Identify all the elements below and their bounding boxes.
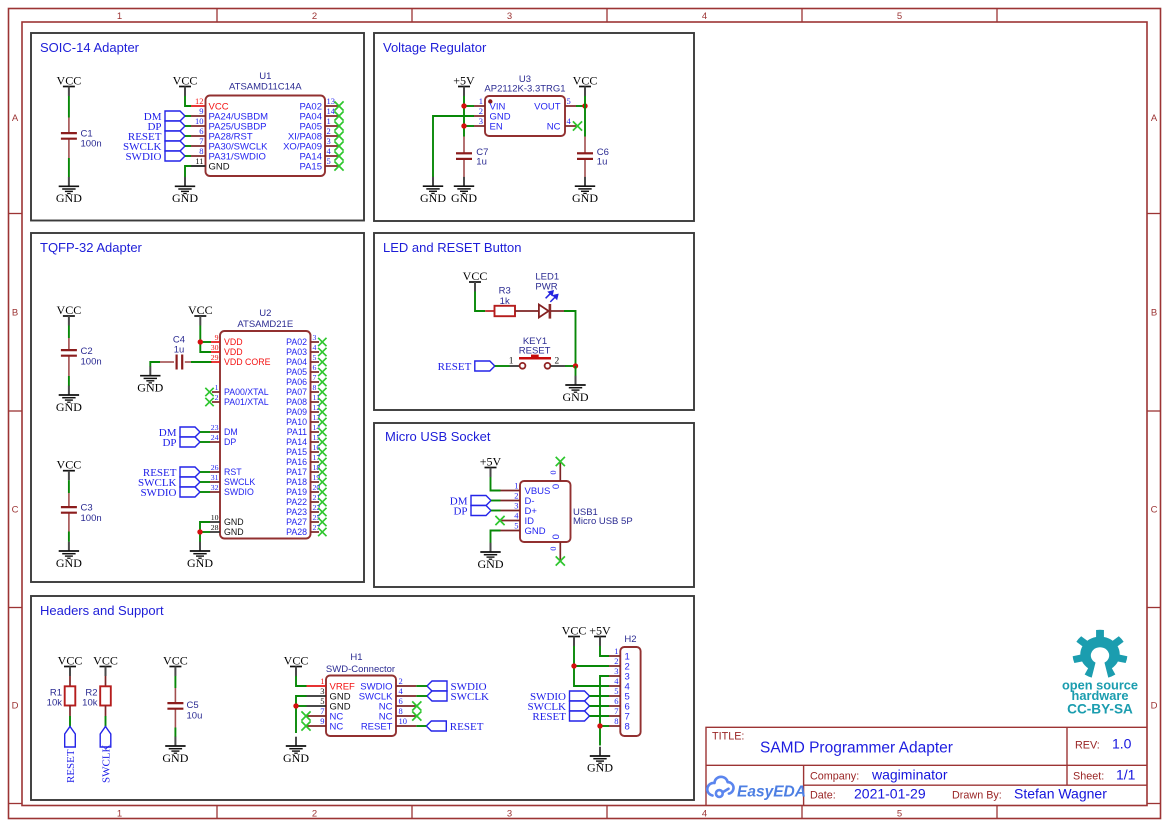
wire USB1 GND to ground: [491, 531, 501, 547]
svg-text:3: 3: [614, 666, 618, 676]
U2 pin 28 (GND): [210, 523, 244, 537]
no-connect X at (322.3,482): [318, 478, 326, 486]
svg-text:SAMD Programmer Adapter: SAMD Programmer Adapter: [760, 740, 953, 757]
svg-text:VCC: VCC: [173, 74, 198, 88]
wire SWDIO flag to H2 pin 5: [590, 695, 610, 697]
wire U3 GND pin to ground: [433, 116, 474, 177]
no-connect X at (322.3,362): [318, 358, 326, 366]
no-connect X at (322.3,412): [318, 408, 326, 416]
svg-text:RESET: RESET: [361, 721, 393, 732]
wire button to GND rail: [565, 365, 576, 367]
no-connect X at (500,520.5): [495, 516, 504, 525]
svg-text:GND: GND: [56, 400, 82, 414]
U2 pin 6 (PA05) with no-connect: [286, 363, 319, 377]
wire H2 pin 8 to ground rail: [600, 725, 609, 727]
wire C4 to VDD CORE pin: [191, 361, 212, 363]
wire DM flag to D-: [491, 500, 501, 502]
U2 pin 22 (PA23) with no-connect: [286, 503, 320, 517]
power flag VCC at (68.9,314): [57, 303, 82, 326]
H2 pin 4: [609, 676, 630, 692]
svg-text:5: 5: [313, 353, 317, 362]
power flag VCC at (105.5,664.5): [93, 654, 118, 677]
svg-text:GND: GND: [56, 556, 82, 570]
svg-text:32: 32: [211, 483, 219, 492]
svg-text:1.0: 1.0: [1112, 736, 1132, 752]
svg-text:10u: 10u: [187, 711, 203, 722]
svg-text:6: 6: [313, 363, 317, 372]
no-connect X at (416.8,706): [412, 701, 421, 710]
section box: SOIC-14 Adapter: [31, 33, 364, 221]
svg-text:PWR: PWR: [535, 282, 557, 293]
svg-text:3: 3: [507, 11, 512, 22]
svg-text:9: 9: [320, 716, 324, 726]
capacitor C5 10u: [167, 700, 202, 722]
net flag DP: [147, 121, 185, 133]
ground symbol at (175.4,746): [162, 737, 188, 765]
U2 pin 15 (PA14) with no-connect: [286, 433, 320, 447]
power flag VCC at (70,664.5): [58, 654, 83, 677]
U3 pin 1 (VIN): [474, 96, 505, 112]
no-connect X at (560.3,561): [556, 556, 565, 565]
capacitor C7 1u: [456, 147, 488, 168]
wire VCC to H1 VREF: [296, 676, 307, 686]
svg-text:1u: 1u: [174, 345, 185, 356]
svg-text:C5: C5: [187, 700, 199, 711]
svg-text:TQFP-32 Adapter: TQFP-32 Adapter: [40, 240, 143, 255]
svg-text:PA01/XTAL: PA01/XTAL: [224, 397, 269, 407]
wire +5V to U3 VIN: [464, 105, 474, 107]
svg-text:2: 2: [312, 809, 317, 820]
no-connect X at (209.5,392): [205, 388, 213, 396]
junction at (574,666): [571, 663, 576, 668]
svg-text:7: 7: [199, 136, 203, 146]
svg-text:SOIC-14 Adapter: SOIC-14 Adapter: [40, 40, 140, 55]
U2 pin 31 (SWCLK): [210, 473, 255, 487]
svg-text:A: A: [1151, 113, 1158, 124]
svg-text:3: 3: [507, 809, 512, 820]
svg-text:1: 1: [509, 356, 514, 366]
U1 pin 4 (PA14) with no-connect: [299, 146, 339, 162]
U2 pin 19 (PA18) with no-connect: [286, 473, 320, 487]
svg-text:VCC: VCC: [573, 74, 598, 88]
wire SWCLK flag: [416, 695, 427, 697]
U2 pin 18 (PA17) with no-connect: [286, 463, 320, 477]
svg-text:C: C: [1151, 505, 1158, 516]
net flag DM: [450, 495, 491, 507]
svg-text:5: 5: [614, 686, 618, 696]
svg-text:PA17: PA17: [286, 467, 307, 477]
no-connect X at (560.3,461.5): [556, 457, 565, 466]
U1 pin 5 (PA15) with no-connect: [299, 156, 339, 172]
no-connect X at (209.5,402): [205, 398, 213, 406]
svg-text:8: 8: [313, 383, 317, 392]
svg-text:0: 0: [551, 534, 562, 539]
svg-text:27: 27: [313, 523, 321, 532]
svg-text:DP: DP: [453, 505, 467, 517]
wire H2 pin 3 to ground rail: [600, 676, 609, 746]
U2 pin 32 (SWDIO): [210, 483, 254, 497]
svg-text:Micro USB Socket: Micro USB Socket: [385, 429, 491, 444]
svg-text:U2: U2: [259, 308, 271, 319]
svg-text:VCC: VCC: [463, 269, 488, 283]
svg-text:3: 3: [313, 333, 317, 342]
wire DM flag to U1: [185, 115, 191, 117]
wire VCC to U2 VDD pins: [200, 326, 211, 353]
svg-text:PA09: PA09: [286, 407, 307, 417]
no-connect X at (322.3,452): [318, 448, 326, 456]
U2 pin 20 (PA19) with no-connect: [286, 483, 320, 497]
wire DP flag to U1: [185, 125, 191, 127]
no-connect X at (339,126): [334, 121, 343, 130]
svg-text:AP2112K-3.3TRG1: AP2112K-3.3TRG1: [484, 84, 565, 95]
net flag DP: [162, 437, 200, 449]
svg-text:0: 0: [551, 484, 562, 489]
junction at (464,126): [461, 123, 466, 128]
U3 pin 3 (EN): [474, 116, 503, 132]
no-connect X at (339,166): [334, 161, 343, 170]
no-connect X at (322.3,422): [318, 418, 326, 426]
svg-text:RESET: RESET: [65, 749, 77, 783]
no-connect X at (322.3,532): [318, 528, 326, 536]
USB1 pin 5 (GND): [501, 521, 546, 537]
net flag RESET: [143, 467, 200, 479]
svg-text:PA08: PA08: [286, 397, 307, 407]
U1 pin 6 (PA28/RST): [191, 126, 253, 142]
svg-text:+5V: +5V: [480, 455, 502, 469]
svg-text:8: 8: [199, 146, 203, 156]
svg-text:C: C: [12, 505, 19, 516]
svg-text:NC: NC: [330, 721, 344, 732]
USB1 shield pin 0 top: [548, 463, 562, 490]
svg-text:1k: 1k: [500, 296, 510, 307]
svg-text:VCC: VCC: [284, 654, 309, 668]
U2 pin 5 (PA04) with no-connect: [286, 353, 319, 367]
svg-text:GND: GND: [478, 557, 504, 571]
svg-text:VCC: VCC: [57, 303, 82, 317]
capacitor C5 leads: [174, 688, 176, 703]
H1 pin 9 (NC): [307, 716, 344, 732]
svg-text:B: B: [1151, 308, 1157, 319]
U2 pin 11 (PA08) with no-connect: [286, 393, 320, 407]
svg-text:25: 25: [313, 513, 321, 522]
no-connect X at (339,146): [334, 141, 343, 150]
net flag RESET: [426, 721, 483, 733]
H2 pin 5: [609, 686, 630, 702]
USB1 pin 3 (D+): [501, 501, 538, 517]
wire C3 to GND: [68, 532, 70, 542]
resistor R3 1k: [485, 286, 539, 317]
svg-text:VDD: VDD: [224, 337, 243, 347]
no-connect X at (322.3,382): [318, 378, 326, 386]
net flag DM: [144, 111, 185, 123]
svg-text:EN: EN: [490, 121, 503, 132]
svg-text:21: 21: [313, 493, 321, 502]
capacitor C1 leads: [68, 118, 70, 134]
U1 pin 8 (PA31/SWDIO): [191, 146, 266, 162]
wire R2 to SWCLK flag: [105, 716, 107, 727]
svg-text:VDD: VDD: [224, 347, 243, 357]
net flag SWCLK: [528, 701, 590, 713]
H1 pin 3 (GND): [307, 686, 351, 702]
svg-text:2021-01-29: 2021-01-29: [854, 786, 926, 802]
title block border lines: [706, 727, 1147, 805]
power flag VCC at (68.9,84.5): [57, 74, 82, 97]
net flag SWCLK: [123, 141, 185, 153]
junction at (200.3,342): [198, 339, 203, 344]
junction at (296,706): [293, 703, 298, 708]
net flag SWDIO: [140, 487, 200, 499]
svg-text:16: 16: [313, 443, 321, 452]
capacitor C7 leads: [463, 137, 465, 154]
no-connect X at (322.3,372): [318, 368, 326, 376]
voltage regulator U3 AP2112K-3.3TRG1 body: [485, 96, 565, 136]
svg-text:REV:: REV:: [1075, 740, 1100, 752]
U1 pin 7 (PA30/SWCLK): [191, 136, 268, 152]
H1 pin 10 (RESET): [361, 716, 416, 732]
svg-text:PA04: PA04: [286, 357, 307, 367]
power flag VCC at (185,84.5): [173, 74, 198, 97]
svg-text:2: 2: [312, 11, 317, 22]
wire SWCLK flag to H2 pin 6: [590, 705, 610, 707]
svg-text:RESET: RESET: [450, 721, 484, 733]
svg-text:8: 8: [399, 706, 403, 716]
junction at (464,106): [461, 103, 466, 108]
wire H1 GND pins to ground: [296, 696, 307, 733]
no-connect X at (322.3,512): [318, 508, 326, 516]
wire R1 to RESET flag: [69, 716, 71, 727]
wire VCC to H2 pins 2 and 4: [574, 646, 609, 686]
wire DP flag to U2: [200, 441, 210, 443]
svg-text:2: 2: [215, 393, 219, 402]
svg-text:Date:: Date:: [810, 790, 836, 802]
svg-text:GND: GND: [420, 191, 446, 205]
svg-text:PA16: PA16: [286, 457, 307, 467]
svg-text:8: 8: [625, 721, 630, 732]
net flag DM: [159, 427, 200, 439]
no-connect X at (339,116): [334, 111, 343, 120]
wire VCC down to R3: [475, 292, 485, 312]
section box: Headers and Support: [31, 596, 694, 800]
svg-text:3: 3: [327, 136, 331, 146]
svg-text:GND: GND: [224, 527, 244, 537]
LED LED1 PWR: [535, 272, 564, 319]
svg-text:DP: DP: [224, 437, 236, 447]
H1 pin 6 (NC): [379, 696, 417, 712]
wire RESET flag to button: [495, 365, 510, 367]
wire VOUT to VCC rail: [576, 105, 585, 107]
junction at (575.5,366): [573, 363, 578, 368]
svg-text:CC-BY-SA: CC-BY-SA: [1067, 702, 1133, 717]
junction at (585,106): [582, 103, 587, 108]
ground symbol at (585,186.2): [572, 177, 598, 205]
svg-text:RESET: RESET: [519, 346, 551, 357]
svg-text:8: 8: [614, 716, 618, 726]
svg-text:6: 6: [614, 696, 618, 706]
wire C4 to ground: [150, 362, 160, 367]
ground symbol at (68.9,395): [56, 386, 82, 414]
net flag SWDIO: [427, 681, 487, 693]
U2 pin 1 (PA00/XTAL): [212, 383, 269, 397]
net flag SWDIO: [530, 691, 590, 703]
U2 pin 7 (PA06) with no-connect: [286, 373, 319, 387]
ground symbol at (68.9,186.3): [56, 177, 82, 205]
resistor R1 10k: [47, 676, 76, 716]
svg-text:19: 19: [313, 473, 321, 482]
svg-text:GND: GND: [187, 556, 213, 570]
svg-text:100n: 100n: [81, 513, 102, 524]
H1 pin 1 (VREF): [307, 676, 356, 692]
svg-text:PA15: PA15: [299, 161, 322, 172]
svg-text:GND: GND: [56, 191, 82, 205]
svg-text:6: 6: [199, 126, 203, 136]
H2 pin 8: [609, 716, 630, 732]
U2 pin 25 (PA27) with no-connect: [286, 513, 320, 527]
U2 pin 29 (VDD CORE): [211, 353, 271, 367]
USB1 pin 1 (VBUS): [501, 481, 551, 497]
U2 pin 3 (PA02) with no-connect: [286, 333, 319, 347]
svg-text:24: 24: [211, 433, 219, 442]
svg-text:13: 13: [313, 413, 321, 422]
capacitor C4 1u (horizontal): [173, 335, 185, 370]
power flag VCC at (475,280): [463, 269, 488, 292]
svg-text:5: 5: [897, 11, 902, 22]
svg-text:U1: U1: [259, 71, 271, 82]
svg-text:GND: GND: [209, 161, 230, 172]
svg-text:H1: H1: [350, 652, 362, 663]
U3 pin 5 (VOUT): [534, 96, 576, 112]
power flag VCC at (296,664.5): [284, 654, 309, 677]
H2 pin 6: [609, 696, 630, 712]
svg-text:5: 5: [567, 96, 571, 106]
svg-text:9: 9: [199, 106, 203, 116]
svg-text:SWDIO: SWDIO: [125, 151, 161, 163]
C4 leads: [160, 361, 174, 363]
svg-text:3: 3: [479, 116, 483, 126]
no-connect X at (322.3,442): [318, 438, 326, 446]
svg-text:5: 5: [320, 696, 324, 706]
svg-text:PA07: PA07: [286, 387, 307, 397]
U2 pin 24 (DP): [210, 433, 236, 447]
ground symbol at (490.5,552): [478, 543, 504, 571]
U2 pin 13 (PA10) with no-connect: [286, 413, 320, 427]
net flag SWCLK: [100, 727, 112, 784]
no-connect X at (322.3,392): [318, 388, 326, 396]
svg-text:17: 17: [313, 453, 321, 462]
svg-text:5: 5: [327, 156, 331, 166]
wire DM flag to U2: [200, 431, 210, 433]
svg-text:PA22: PA22: [286, 497, 307, 507]
svg-text:10: 10: [195, 116, 204, 126]
wire down to ground: [575, 366, 577, 376]
svg-text:7: 7: [614, 706, 618, 716]
svg-text:PA23: PA23: [286, 507, 307, 517]
svg-text:4: 4: [702, 11, 707, 22]
no-connect X at (306,726): [301, 721, 310, 730]
net flag RESET: [128, 131, 185, 143]
wire LED to GND rail: [564, 311, 576, 366]
svg-text:1: 1: [479, 96, 483, 106]
wire VCC to U1 pin 12: [185, 96, 191, 106]
wire +5V rail down to C7: [463, 96, 465, 137]
svg-text:A: A: [12, 113, 19, 124]
wire VCC rail down to C6: [584, 96, 586, 137]
svg-text:12: 12: [313, 403, 321, 412]
svg-text:GND: GND: [587, 761, 613, 775]
svg-text:1/1: 1/1: [1116, 767, 1136, 783]
svg-text:PA10: PA10: [286, 417, 307, 427]
capacitor C2 100n: [61, 346, 102, 368]
svg-text:22: 22: [313, 503, 321, 512]
svg-text:0: 0: [548, 546, 558, 550]
svg-text:26: 26: [211, 463, 219, 472]
svg-text:PA05: PA05: [286, 367, 307, 377]
svg-text:31: 31: [211, 473, 219, 482]
section box: Voltage Regulator: [374, 33, 694, 221]
svg-text:NC: NC: [547, 121, 561, 132]
svg-text:RESET: RESET: [438, 361, 472, 373]
svg-text:1: 1: [320, 676, 324, 686]
U2 pin 17 (PA16) with no-connect: [286, 453, 320, 467]
svg-text:6: 6: [399, 696, 403, 706]
ground symbol at (464,186.2): [451, 177, 477, 205]
power flag VCC at (200.3,314): [188, 303, 213, 326]
U2 pin 12 (PA09) with no-connect: [286, 403, 320, 417]
svg-text:TITLE:: TITLE:: [712, 731, 744, 743]
wire C1 to GND: [68, 158, 70, 177]
svg-text:10: 10: [211, 513, 219, 522]
wire SWCLK flag to U2: [200, 481, 210, 483]
svg-text:1u: 1u: [597, 157, 608, 168]
svg-text:15: 15: [313, 433, 321, 442]
svg-text:SWDIO: SWDIO: [224, 487, 254, 497]
ground symbol at (150.3,375.7): [137, 366, 163, 394]
wire VCC to C3: [68, 480, 70, 493]
power flag VCC at (585,84.5): [573, 74, 598, 97]
svg-text:VDD CORE: VDD CORE: [224, 357, 271, 367]
H1 pin 2 (SWDIO): [360, 676, 416, 692]
svg-text:PA19: PA19: [286, 487, 307, 497]
svg-text:11: 11: [195, 156, 203, 166]
no-connect X at (577.5,126): [573, 121, 582, 130]
no-connect X at (322.3,402): [318, 398, 326, 406]
wire VCC to C2: [68, 326, 70, 339]
svg-text:GND: GND: [224, 517, 244, 527]
no-connect X at (339,136): [334, 131, 343, 140]
svg-text:1: 1: [614, 646, 618, 656]
svg-text:DP: DP: [162, 437, 176, 449]
svg-text:RST: RST: [224, 467, 242, 477]
U2 pin 23 (DM): [210, 423, 238, 437]
no-connect X at (306,716): [301, 711, 310, 720]
svg-text:2: 2: [399, 676, 403, 686]
svg-text:4: 4: [702, 809, 707, 820]
U1 pin 13 (PA02) with no-connect: [299, 96, 339, 112]
frame column numbers 1-5 top and bottom: [117, 11, 902, 820]
ground symbol at (433,186.2): [420, 177, 446, 205]
ground symbol at (68.9,551): [56, 542, 82, 570]
svg-text:Sheet:: Sheet:: [1073, 771, 1104, 783]
svg-text:10k: 10k: [82, 697, 98, 708]
svg-text:GND: GND: [563, 390, 589, 404]
svg-text:SWD-Connector: SWD-Connector: [326, 664, 395, 675]
svg-text:PA02: PA02: [286, 337, 307, 347]
no-connect X at (322.3,472): [318, 468, 326, 476]
net flag RESET: [532, 711, 589, 723]
ground symbol at (600,756): [587, 747, 613, 775]
H2 pin 1: [609, 646, 630, 662]
H1 pin 7 (NC): [307, 706, 344, 722]
svg-text:D: D: [12, 701, 19, 712]
